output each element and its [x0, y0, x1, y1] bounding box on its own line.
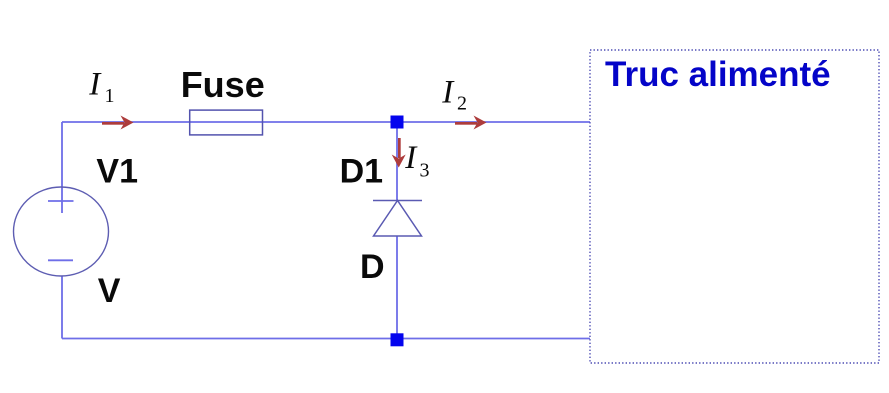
diode D cathode bar — [373, 200, 422, 202]
wire left vertical (into source plus) — [61, 122, 63, 213]
svg-text:D1: D1 — [340, 153, 383, 191]
wire middle vertical upper — [396, 122, 398, 200]
current arrow I2 — [455, 116, 487, 130]
voltage source plus bar — [48, 200, 74, 202]
wire middle vertical lower — [396, 236, 398, 339]
load box (Truc alimenté) — [590, 50, 879, 363]
diode D triangle — [374, 201, 422, 237]
wire left vertical lower — [61, 276, 63, 339]
voltage source minus bar — [48, 259, 73, 261]
current arrow I3 — [392, 138, 406, 168]
junction node top — [391, 116, 404, 129]
svg-text:I: I — [88, 66, 102, 102]
svg-text:V1: V1 — [96, 153, 138, 191]
svg-text:D: D — [360, 248, 385, 286]
svg-text:1: 1 — [105, 85, 115, 107]
svg-text:2: 2 — [457, 93, 467, 115]
fuse body rectangle — [190, 110, 263, 135]
svg-text:Truc alimenté: Truc alimenté — [605, 55, 831, 94]
svg-text:I: I — [441, 74, 455, 110]
voltage source V1 circle — [14, 187, 109, 276]
svg-text:I: I — [404, 140, 418, 176]
svg-text:3: 3 — [420, 159, 430, 181]
svg-text:V: V — [98, 272, 121, 310]
junction node bottom — [391, 333, 404, 346]
svg-text:Fuse: Fuse — [181, 64, 265, 105]
wire top horizontal — [62, 121, 590, 123]
current arrow I1 — [102, 116, 134, 130]
wire bottom horizontal — [62, 338, 590, 340]
